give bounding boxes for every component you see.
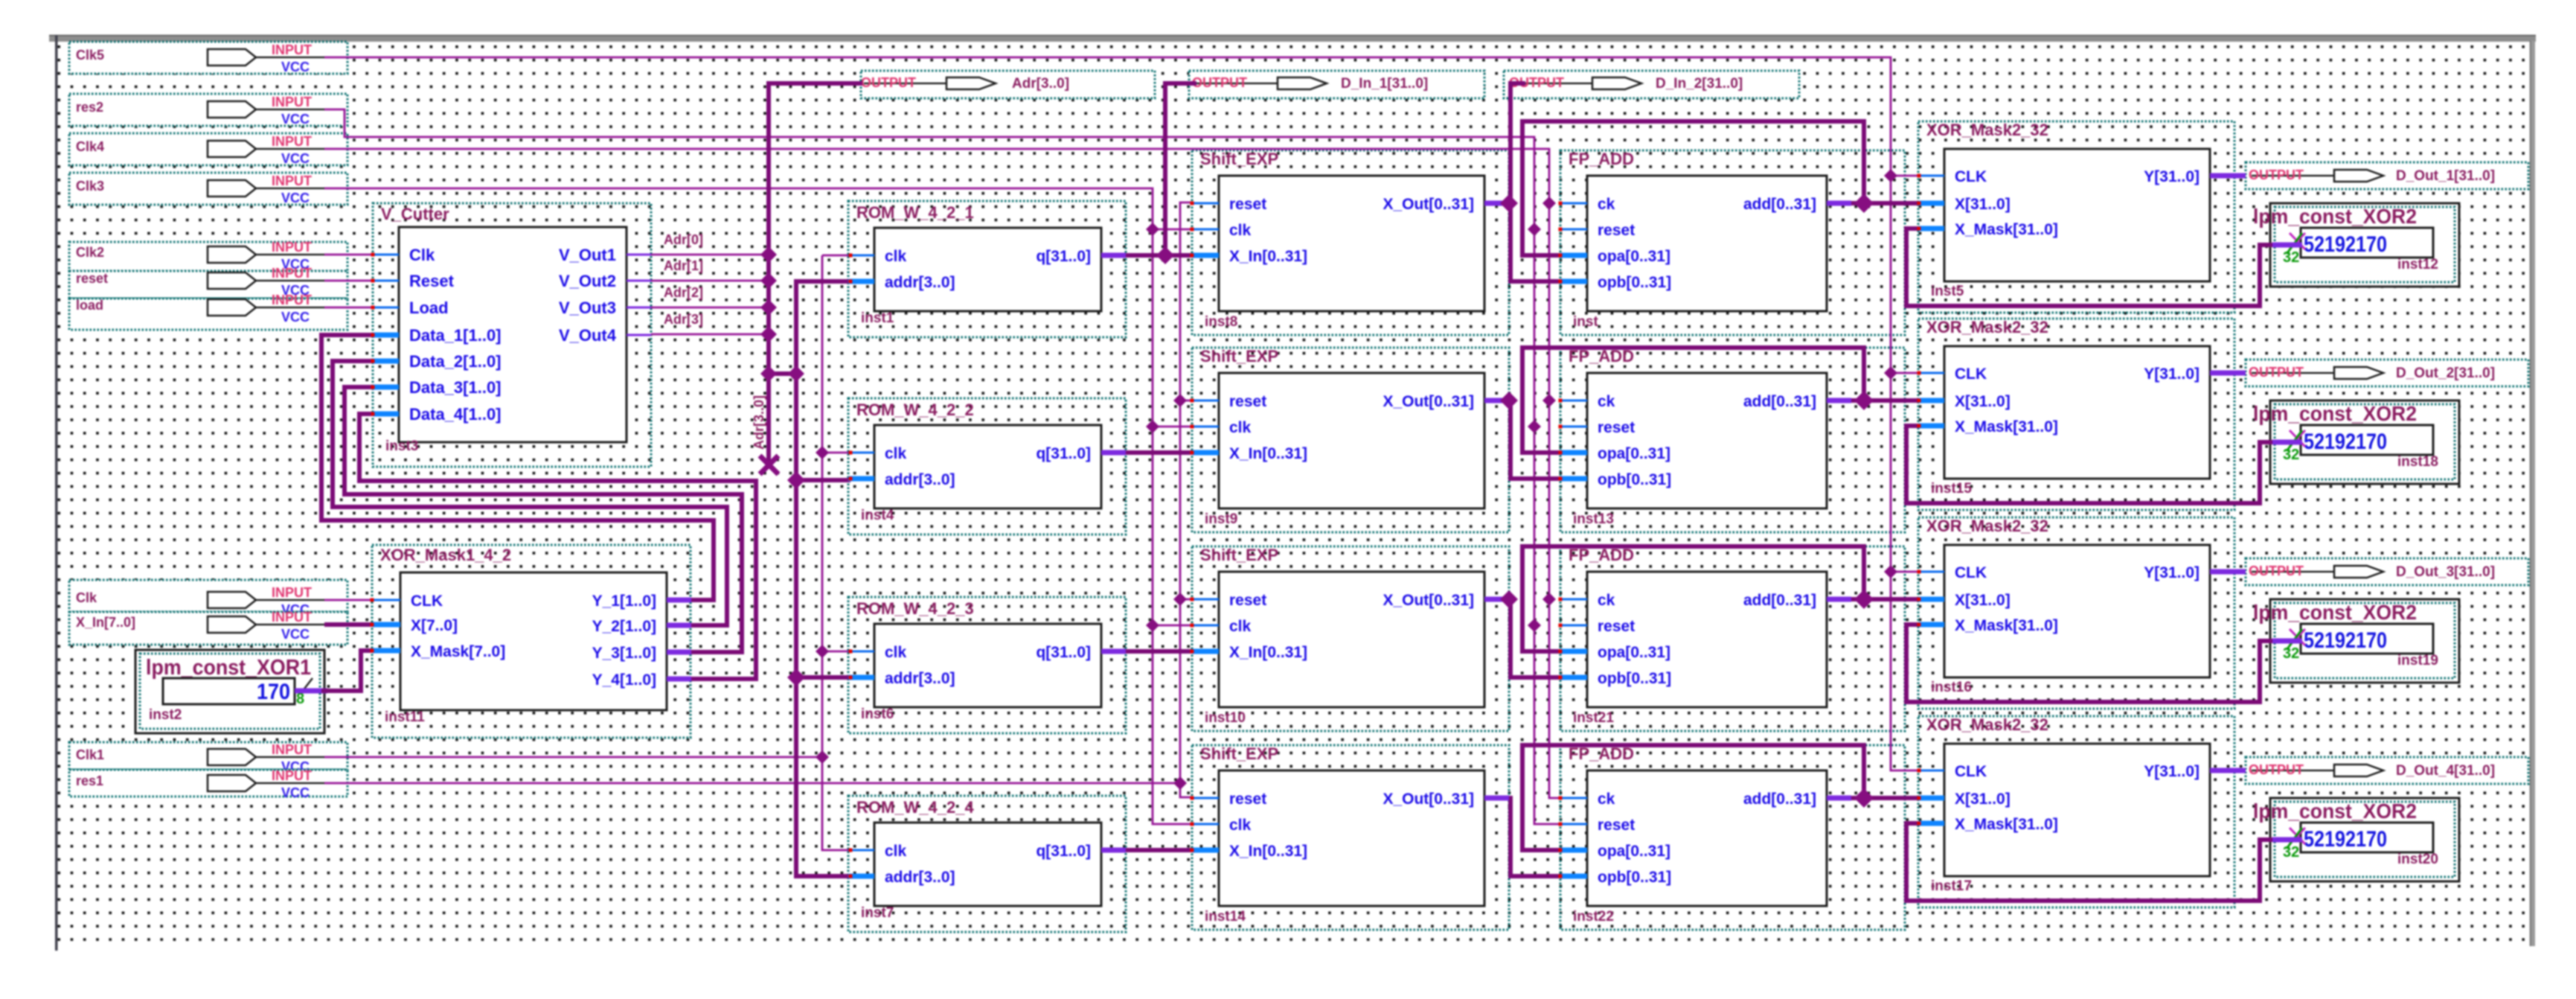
wire Clk5 tap to XOR_Mask2 CLK <box>1891 571 1919 573</box>
svg-text:Data_2[1..0]: Data_2[1..0] <box>409 352 502 371</box>
svg-text:q[31..0]: q[31..0] <box>1036 644 1091 661</box>
svg-text:reset: reset <box>1598 222 1635 239</box>
svg-text:Y_4[1..0]: Y_4[1..0] <box>592 671 656 689</box>
svg-text:X_Out[0..31]: X_Out[0..31] <box>1382 393 1474 410</box>
svg-text:inst9: inst9 <box>1205 511 1237 527</box>
junction nodes Shift reset line <box>1173 394 1187 407</box>
block Shift_EXP inst14 <box>1192 744 1509 925</box>
svg-text:ck: ck <box>1598 791 1615 808</box>
svg-text:opa[0..31]: opa[0..31] <box>1598 248 1670 265</box>
svg-text:reset: reset <box>1229 196 1266 213</box>
svg-text:Clk5: Clk5 <box>76 48 104 63</box>
selection box FP_ADD row 3 <box>1560 546 1905 731</box>
selection box XOR_Mask2_32 row 2 <box>1918 319 2234 510</box>
svg-text:add[0..31]: add[0..31] <box>1743 393 1816 410</box>
wire Clk3 <box>324 188 1192 824</box>
output pin Adr[3..0] <box>861 71 1155 98</box>
svg-text:inst7: inst7 <box>861 905 894 921</box>
svg-text:Y_1[1..0]: Y_1[1..0] <box>592 593 656 610</box>
input pin load <box>69 293 347 330</box>
svg-text:V_Out2: V_Out2 <box>559 272 616 290</box>
wire Clk2 to V_Cutter Clk <box>324 254 373 256</box>
svg-text:inst21: inst21 <box>1573 710 1614 726</box>
svg-text:X[31..0]: X[31..0] <box>1955 196 2011 213</box>
svg-text:Shift_EXP: Shift_EXP <box>1200 150 1278 168</box>
svg-text:Adr[0]: Adr[0] <box>664 232 703 247</box>
svg-text:X_In[0..31]: X_In[0..31] <box>1229 644 1307 661</box>
block XOR_Mask2_32 inst5 <box>1918 121 2234 299</box>
bus FP_ADD3 add to XOR_Mask2 X <box>1851 597 1919 601</box>
svg-text:OUTPUT: OUTPUT <box>2249 167 2304 182</box>
input pin res2 <box>69 94 347 127</box>
svg-text:CLK: CLK <box>1955 564 1987 581</box>
bus Data_4 loop from Y_4 <box>359 414 756 679</box>
svg-text:Load: Load <box>409 299 449 317</box>
bus XOR_Mask2_32 Y to D_Out_4 <box>2234 768 2246 773</box>
svg-text:addr[3..0]: addr[3..0] <box>885 471 955 488</box>
bus FP_ADD1 add feedback to opa <box>1522 121 1864 255</box>
wire res2 <box>324 109 1560 824</box>
svg-text:Y[31..0]: Y[31..0] <box>2144 168 2199 185</box>
bus lpm_const_XOR2 to XOR_Mask2_32 X_Mask row 1 <box>1906 229 2260 306</box>
svg-text:V_Out1: V_Out1 <box>559 246 616 264</box>
svg-text:X_Mask[31..0]: X_Mask[31..0] <box>1955 221 2058 238</box>
svg-text:Data_1[1..0]: Data_1[1..0] <box>409 326 502 345</box>
svg-text:X[31..0]: X[31..0] <box>1955 393 2011 410</box>
bus lpm_const_XOR2 to XOR_Mask2_32 X_Mask row 4 <box>1906 823 2260 901</box>
selection box FP_ADD row 1 <box>1560 150 1905 335</box>
svg-text:clk: clk <box>885 445 907 462</box>
junction nodes Adr bus <box>760 246 777 263</box>
svg-text:reset: reset <box>1229 791 1266 808</box>
svg-text:clk: clk <box>885 248 907 265</box>
svg-text:inst3: inst3 <box>385 438 418 454</box>
svg-text:inst10: inst10 <box>1205 710 1246 726</box>
svg-text:D_Out_1[31..0]: D_Out_1[31..0] <box>2396 168 2495 184</box>
svg-text:INPUT: INPUT <box>272 42 312 57</box>
svg-text:Adr[3]: Adr[3] <box>664 312 703 327</box>
svg-text:OUTPUT: OUTPUT <box>2249 365 2304 380</box>
svg-text:q[31..0]: q[31..0] <box>1036 445 1091 462</box>
wire Clk to XOR_Mask1_4_2 CLK <box>324 599 372 601</box>
svg-text:VCC: VCC <box>281 310 310 325</box>
output pin D_In_2[31..0] <box>1504 71 1799 98</box>
svg-text:XOR_Mask2_32: XOR_Mask2_32 <box>1926 715 2048 734</box>
svg-text:INPUT: INPUT <box>272 240 312 255</box>
svg-text:INPUT: INPUT <box>272 768 312 783</box>
bus width slash 32 <box>2287 233 2302 254</box>
wire load to V_Cutter Load <box>324 307 373 309</box>
wire Shift reset taps <box>1180 400 1192 402</box>
bus XOR_Mask2_32 Y to D_Out_2 <box>2234 371 2246 376</box>
svg-text:32: 32 <box>2283 844 2299 861</box>
bus width slash 32 <box>2287 828 2302 849</box>
svg-text:INPUT: INPUT <box>272 610 312 625</box>
svg-text:inst6: inst6 <box>861 706 894 722</box>
bus Data_2 loop from Y_2 <box>333 361 727 625</box>
bus entry X marker <box>2290 828 2305 844</box>
wire res1 <box>324 782 1179 785</box>
output pin D_In_1[31..0] <box>1189 71 1484 98</box>
wire Clk4 <box>324 149 1560 798</box>
bus entry lpm_const_XOR2 row 1 <box>2258 243 2274 247</box>
selection box FP_ADD row 4 <box>1560 745 1905 930</box>
input pin Clk1 <box>69 742 347 774</box>
svg-text:inst18: inst18 <box>2397 454 2438 470</box>
svg-text:XOR_Mask1_4_2: XOR_Mask1_4_2 <box>380 546 511 564</box>
bus entry X marker <box>2290 629 2305 645</box>
svg-text:FP_ADD: FP_ADD <box>1569 744 1634 763</box>
svg-text:Shift_EXP: Shift_EXP <box>1200 546 1278 564</box>
wire Clk5 tap to XOR_Mask2 CLK <box>1891 175 1919 177</box>
junction nodes add outputs <box>1854 194 1874 213</box>
bus entry lpm_const_XOR2 row 3 <box>2258 639 2274 643</box>
svg-text:32: 32 <box>2283 645 2299 662</box>
bus X_Out3 to FP_ADD opb <box>1500 599 1560 677</box>
selection box V_Cutter <box>373 203 651 467</box>
wire V_Out2 to Adr[1] node <box>651 280 769 282</box>
svg-text:X_Out[0..31]: X_Out[0..31] <box>1382 791 1474 808</box>
selection box FP_ADD row 2 <box>1560 348 1905 532</box>
svg-text:clk: clk <box>1229 222 1252 239</box>
sheet frame left <box>55 35 58 951</box>
svg-text:D_Out_4[31..0]: D_Out_4[31..0] <box>2396 763 2495 779</box>
svg-text:inst: inst <box>1573 314 1598 330</box>
svg-text:reset: reset <box>76 271 108 286</box>
svg-text:INPUT: INPUT <box>272 173 312 188</box>
svg-text:XOR_Mask2_32: XOR_Mask2_32 <box>1926 318 2048 336</box>
bus entry lpm_const_XOR2 row 2 <box>2258 440 2274 444</box>
constant lpm_const_XOR2 inst19 <box>2253 599 2459 683</box>
junction nodes X_Out column <box>1500 194 1518 212</box>
svg-text:ck: ck <box>1598 592 1615 609</box>
svg-text:q[31..0]: q[31..0] <box>1036 248 1091 265</box>
block Shift_EXP inst10 <box>1192 546 1509 726</box>
bus entry X marker <box>2290 233 2305 249</box>
block XOR_Mask2_32 inst15 <box>1918 318 2234 497</box>
svg-text:VCC: VCC <box>281 112 310 127</box>
svg-text:X[7..0]: X[7..0] <box>411 617 458 634</box>
block FP_ADD inst <box>1560 150 1851 330</box>
bus FP_ADD2 add to XOR_Mask2 X <box>1851 398 1919 403</box>
svg-text:add[0..31]: add[0..31] <box>1743 196 1816 213</box>
svg-text:ROM_W_4_2_2: ROM_W_4_2_2 <box>856 400 974 419</box>
svg-text:opa[0..31]: opa[0..31] <box>1598 843 1670 860</box>
output pin D_Out_4[31..0] <box>2246 757 2528 784</box>
svg-text:INPUT: INPUT <box>272 293 312 307</box>
svg-text:X_Mask[7..0]: X_Mask[7..0] <box>411 643 505 660</box>
svg-text:Clk3: Clk3 <box>76 179 104 194</box>
wire V_Out3 to Adr[2] node <box>651 307 769 309</box>
svg-text:OUTPUT: OUTPUT <box>861 75 916 90</box>
input pin reset <box>69 266 347 299</box>
svg-text:inst15: inst15 <box>1931 481 1972 497</box>
X marker end of Adr bus <box>760 456 778 474</box>
junction node D_In_1 tap <box>1156 246 1174 264</box>
selection box XOR_Mask2_32 row 1 <box>1918 121 2234 313</box>
svg-text:D_Out_2[31..0]: D_Out_2[31..0] <box>2396 366 2495 381</box>
bus X_Out4 to FP_ADD opb <box>1500 798 1560 876</box>
svg-text:opb[0..31]: opb[0..31] <box>1598 471 1671 488</box>
wire Shift reset distribution line <box>1180 202 1192 797</box>
svg-text:XOR_Mask2_32: XOR_Mask2_32 <box>1926 517 2048 535</box>
junction nodes ROM clk line <box>816 446 829 459</box>
svg-text:inst22: inst22 <box>1573 909 1614 925</box>
svg-text:VCC: VCC <box>281 627 310 642</box>
svg-text:inst20: inst20 <box>2397 852 2438 867</box>
svg-text:CLK: CLK <box>1955 763 1987 780</box>
svg-text:VCC: VCC <box>281 60 310 74</box>
constant lpm_const_XOR1 inst2 <box>135 650 324 733</box>
svg-text:X_Out[0..31]: X_Out[0..31] <box>1382 196 1474 213</box>
bus width slash 32 <box>2287 430 2302 451</box>
bus Adr link to ROM addr trunk <box>769 371 796 376</box>
connection points <box>1191 202 1194 205</box>
wire Clk1 to ROM clk line <box>324 756 822 759</box>
bus width slash 32 <box>2287 629 2302 650</box>
svg-text:inst2: inst2 <box>149 707 182 723</box>
block Shift_EXP inst8 <box>1192 150 1509 330</box>
svg-text:inst11: inst11 <box>385 709 425 725</box>
bus FP_ADD2 add feedback to opa <box>1522 348 1864 453</box>
svg-text:Y[31..0]: Y[31..0] <box>2144 564 2199 581</box>
svg-text:52192170: 52192170 <box>2304 232 2387 257</box>
selection box ROM_W_4_2_1 <box>848 201 1126 337</box>
svg-text:Clk: Clk <box>76 590 97 605</box>
svg-text:Shift_EXP: Shift_EXP <box>1200 347 1278 366</box>
svg-text:V_Out3: V_Out3 <box>559 299 616 317</box>
svg-text:addr[3..0]: addr[3..0] <box>885 670 955 687</box>
svg-text:reset: reset <box>1229 592 1266 609</box>
bus D_In_2 / X_Out1 vertical <box>1510 83 1560 281</box>
svg-text:clk: clk <box>885 843 907 860</box>
svg-text:opa[0..31]: opa[0..31] <box>1598 644 1670 661</box>
svg-text:lpm_const_XOR2: lpm_const_XOR2 <box>2253 799 2417 823</box>
svg-text:Y_3[1..0]: Y_3[1..0] <box>592 645 656 662</box>
selection box XOR_Mask2_32 row 4 <box>1918 716 2234 907</box>
bus XOR_Mask2_32 Y to D_Out_3 <box>2234 569 2246 575</box>
svg-text:ck: ck <box>1598 393 1615 410</box>
svg-text:Clk1: Clk1 <box>76 747 104 762</box>
input pin X_In[7..0] <box>69 610 347 645</box>
wire V_Out4 to Adr[3] node <box>651 333 769 336</box>
svg-text:reset: reset <box>1229 393 1266 410</box>
svg-text:inst13: inst13 <box>1573 511 1614 527</box>
selection box ROM_W_4_2_4 <box>848 796 1126 932</box>
svg-text:ROM_W_4_2_1: ROM_W_4_2_1 <box>856 203 974 222</box>
svg-text:addr[3..0]: addr[3..0] <box>885 274 955 291</box>
constant lpm_const_XOR2 inst20 <box>2253 798 2459 881</box>
sheet frame top <box>49 35 2536 42</box>
svg-text:X_In[0..31]: X_In[0..31] <box>1229 445 1307 462</box>
svg-text:inst16: inst16 <box>1931 680 1972 695</box>
svg-text:addr[3..0]: addr[3..0] <box>885 869 955 886</box>
input pin Clk2 <box>69 240 347 272</box>
svg-text:q[31..0]: q[31..0] <box>1036 843 1091 860</box>
svg-text:reset: reset <box>1598 817 1635 834</box>
svg-text:reset: reset <box>1598 618 1635 635</box>
bus X_Out1 stub link <box>1500 201 1510 205</box>
svg-text:add[0..31]: add[0..31] <box>1743 791 1816 808</box>
bus D_In_1 tap from X_In row1 <box>1165 83 1196 255</box>
block ROM_W_4_2_3 inst6 <box>848 599 1126 722</box>
bus Data_1 loop from Y_1 <box>321 335 714 600</box>
svg-text:Data_4[1..0]: Data_4[1..0] <box>409 405 502 424</box>
svg-text:X_Mask[31..0]: X_Mask[31..0] <box>1955 816 2058 833</box>
svg-text:lpm_const_XOR2: lpm_const_XOR2 <box>2253 601 2417 624</box>
svg-text:VCC: VCC <box>281 785 310 800</box>
input pin Clk <box>69 580 347 617</box>
svg-text:X_Out[0..31]: X_Out[0..31] <box>1382 592 1474 609</box>
constant lpm_const_XOR2 inst12 <box>2253 203 2459 287</box>
bus width slash 8 <box>302 678 313 692</box>
svg-text:ck: ck <box>1598 196 1615 213</box>
bus FP_ADD1 add to XOR_Mask2 X <box>1851 201 1919 205</box>
block V_Cutter inst3 <box>373 205 651 454</box>
svg-text:Data_3[1..0]: Data_3[1..0] <box>409 378 502 397</box>
bus lpm_const_XOR2 to XOR_Mask2_32 X_Mask row 3 <box>1906 625 2260 702</box>
selection box XOR_Mask2_32 row 3 <box>1918 517 2234 709</box>
svg-text:CLK: CLK <box>1955 366 1987 383</box>
wire reset to V_Cutter Reset <box>324 280 373 282</box>
output pin D_Out_2[31..0] <box>2246 360 2528 386</box>
svg-text:CLK: CLK <box>1955 168 1987 185</box>
block XOR_Mask1_4_2 inst11 <box>372 546 691 725</box>
svg-text:X[31..0]: X[31..0] <box>1955 791 2011 808</box>
svg-text:52192170: 52192170 <box>2304 827 2387 852</box>
block Shift_EXP inst9 <box>1192 347 1509 527</box>
svg-text:reset: reset <box>1598 419 1635 436</box>
svg-text:opb[0..31]: opb[0..31] <box>1598 274 1671 291</box>
svg-text:inst1: inst1 <box>861 310 894 326</box>
bus FP_ADD4 add to XOR_Mask2 X <box>1851 796 1919 800</box>
wire Clk5 tap to XOR_Mask2 CLK <box>1891 372 1919 374</box>
svg-text:opb[0..31]: opb[0..31] <box>1598 869 1671 886</box>
output pin D_Out_1[31..0] <box>2246 162 2528 189</box>
svg-text:Clk2: Clk2 <box>76 245 104 260</box>
svg-text:Adr[3..0]: Adr[3..0] <box>1012 76 1069 92</box>
bus X_Out2 to FP_ADD opb <box>1500 400 1560 479</box>
junction nodes FP clk/reset lines <box>1542 197 1556 210</box>
svg-text:FP_ADD: FP_ADD <box>1569 546 1634 564</box>
svg-text:inst19: inst19 <box>2397 653 2438 668</box>
junction nodes Shift clk line <box>1146 223 1159 236</box>
svg-text:res2: res2 <box>76 100 103 115</box>
bus X_In[7..0] to XOR_Mask1_4_2 X <box>324 622 372 627</box>
svg-text:OUTPUT: OUTPUT <box>2249 762 2304 777</box>
svg-text:add[0..31]: add[0..31] <box>1743 592 1816 609</box>
selection box XOR_Mask1_4_2 <box>372 545 691 738</box>
svg-text:V_Out4: V_Out4 <box>559 326 617 345</box>
wire Shift clk taps <box>1153 229 1192 231</box>
bus FP_ADD4 add feedback to opa <box>1522 745 1864 850</box>
svg-text:inst4: inst4 <box>861 508 894 523</box>
junction nodes ROM addr trunk <box>787 471 805 489</box>
selection box ROM_W_4_2_2 <box>848 398 1126 534</box>
svg-text:opa[0..31]: opa[0..31] <box>1598 445 1670 462</box>
svg-text:INPUT: INPUT <box>272 585 312 600</box>
bus ROM_W_4_2_1 q to Shift_EXP X_In <box>1126 253 1192 258</box>
svg-text:V_Cutter: V_Cutter <box>381 205 449 223</box>
svg-text:lpm_const_XOR2: lpm_const_XOR2 <box>2253 402 2417 425</box>
input pin res1 <box>69 768 347 800</box>
svg-text:lpm_const_XOR1: lpm_const_XOR1 <box>146 656 311 680</box>
wire ROM clk distribution line <box>822 255 850 850</box>
selection box Shift_EXP row 4 <box>1192 745 1509 930</box>
bus ROM_W_4_2_4 q to Shift_EXP X_In <box>1126 848 1192 852</box>
svg-text:D_Out_3[31..0]: D_Out_3[31..0] <box>2396 564 2495 580</box>
svg-text:inst5: inst5 <box>1931 284 1964 299</box>
svg-text:ROM_W_4_2_4: ROM_W_4_2_4 <box>856 798 975 817</box>
bus ROM addr trunk <box>796 281 850 876</box>
svg-text:VCC: VCC <box>281 151 310 166</box>
block XOR_Mask2_32 inst16 <box>1918 517 2234 695</box>
svg-text:Adr[3..0]: Adr[3..0] <box>752 395 766 450</box>
bus ROM_W_4_2_3 q to Shift_EXP X_In <box>1126 649 1192 654</box>
selection box ROM_W_4_2_3 <box>848 597 1126 733</box>
wire Clk5 <box>324 57 1919 770</box>
svg-text:X_In[0..31]: X_In[0..31] <box>1229 843 1307 860</box>
bus stub lpm_const_XOR1 output <box>295 689 327 694</box>
constant lpm_const_XOR2 inst18 <box>2253 400 2459 484</box>
svg-text:opb[0..31]: opb[0..31] <box>1598 670 1671 687</box>
svg-text:ROM_W_4_2_3: ROM_W_4_2_3 <box>856 599 974 618</box>
svg-text:INPUT: INPUT <box>272 266 312 281</box>
svg-text:clk: clk <box>1229 419 1252 436</box>
svg-text:Y[31..0]: Y[31..0] <box>2144 366 2199 383</box>
svg-text:clk: clk <box>885 644 907 661</box>
input pin Clk3 <box>69 173 347 205</box>
block FP_ADD inst21 <box>1560 546 1851 726</box>
svg-text:Reset: Reset <box>409 272 455 290</box>
output pin D_Out_3[31..0] <box>2246 558 2528 585</box>
bus entry X marker <box>2290 430 2305 447</box>
block ROM_W_4_2_1 inst1 <box>848 203 1126 326</box>
input pin Clk4 <box>69 133 347 166</box>
bus lpm_const_XOR1 to X_Mask[7..0] <box>326 651 372 691</box>
bus Data_3 loop from Y_3 <box>345 387 742 652</box>
svg-text:Clk4: Clk4 <box>76 139 104 154</box>
block FP_ADD inst22 <box>1560 744 1851 925</box>
svg-text:X[31..0]: X[31..0] <box>1955 592 2011 609</box>
sheet frame right <box>2530 41 2535 946</box>
block ROM_W_4_2_2 inst4 <box>848 400 1126 523</box>
svg-text:X_In[7..0]: X_In[7..0] <box>76 615 135 630</box>
bus XOR_Mask2_32 Y to D_Out_1 <box>2234 173 2246 179</box>
svg-text:170: 170 <box>257 680 290 704</box>
svg-text:Clk: Clk <box>409 246 435 264</box>
junction nodes CLK XOR_Mask2 line <box>1884 169 1897 182</box>
wire V_Out1 to Adr[0] node <box>651 254 769 256</box>
svg-text:clk: clk <box>1229 817 1252 834</box>
svg-text:52192170: 52192170 <box>2304 628 2387 653</box>
bus ROM addr taps <box>796 478 850 482</box>
svg-text:X_Mask[31..0]: X_Mask[31..0] <box>1955 418 2058 435</box>
svg-text:Adr[2]: Adr[2] <box>664 285 703 300</box>
svg-text:D_In_1[31..0]: D_In_1[31..0] <box>1341 76 1428 92</box>
svg-text:32: 32 <box>2283 249 2299 266</box>
svg-text:D_In_2[31..0]: D_In_2[31..0] <box>1656 76 1743 92</box>
svg-text:inst17: inst17 <box>1931 878 1972 894</box>
bus entry lpm_const_XOR2 row 4 <box>2258 837 2274 842</box>
input pin Clk5 <box>69 42 347 74</box>
svg-text:inst12: inst12 <box>2397 257 2438 272</box>
svg-text:lpm_const_XOR2: lpm_const_XOR2 <box>2253 205 2417 228</box>
block ROM_W_4_2_4 inst7 <box>848 798 1126 921</box>
svg-text:52192170: 52192170 <box>2304 430 2387 454</box>
svg-text:VCC: VCC <box>281 191 310 205</box>
svg-text:Y[31..0]: Y[31..0] <box>2144 763 2199 780</box>
